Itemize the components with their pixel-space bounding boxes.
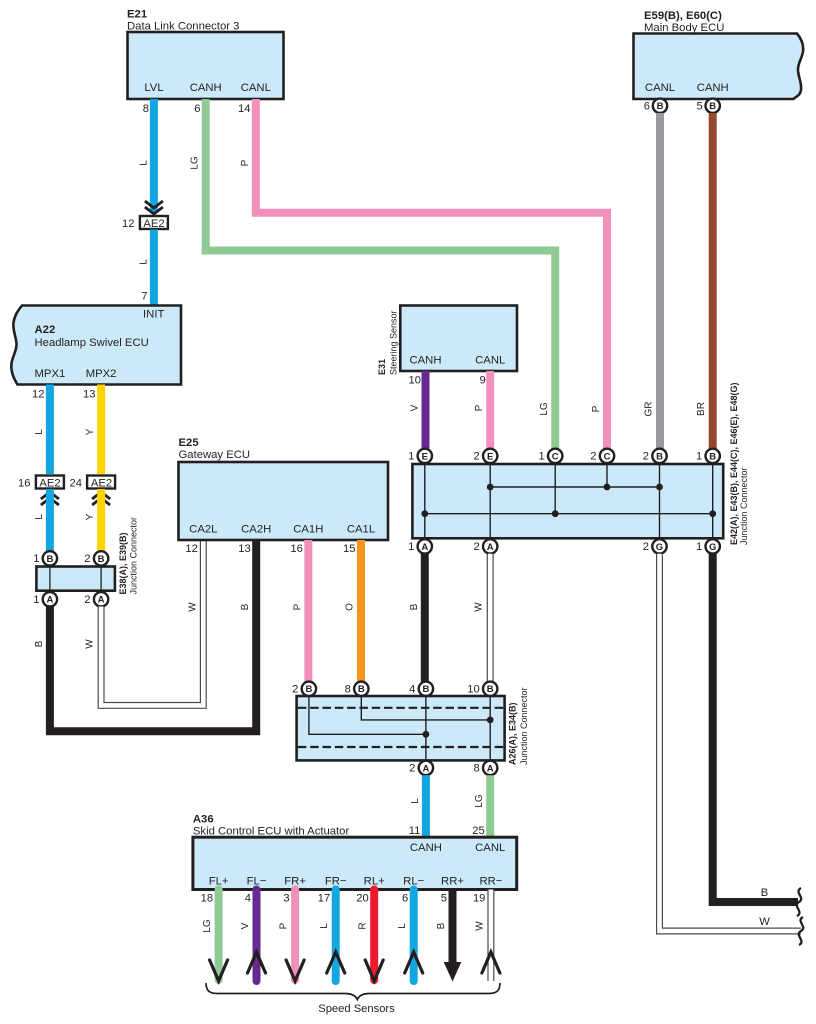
pin 1(A) of E38	[33, 592, 57, 606]
wire V (E31 CANH pin 10 to junction E42 pin 1E)	[409, 371, 426, 449]
svg-text:B: B	[761, 887, 768, 899]
svg-text:20: 20	[356, 893, 368, 905]
junction dot at 2C bus	[604, 484, 611, 491]
connector AE2 (pin 24) with chevron	[70, 476, 116, 506]
svg-text:25: 25	[472, 825, 484, 837]
sensor E31 (Steering Sensor) box	[377, 306, 517, 376]
svg-text:3: 3	[283, 893, 289, 905]
svg-text:B: B	[709, 451, 716, 462]
svg-text:4: 4	[245, 893, 251, 905]
svg-text:B: B	[409, 603, 420, 610]
svg-text:Headlamp Swivel ECU: Headlamp Swivel ECU	[35, 337, 149, 349]
svg-text:P: P	[474, 404, 485, 411]
connector AE2 (pin 12) with chevron	[122, 201, 168, 230]
svg-text:AE2: AE2	[39, 478, 60, 490]
svg-text:LVL: LVL	[144, 82, 163, 94]
svg-text:CA2H: CA2H	[241, 524, 271, 536]
svg-text:2: 2	[84, 594, 90, 606]
svg-text:B: B	[487, 684, 494, 695]
svg-text:CA1L: CA1L	[347, 524, 375, 536]
svg-text:10: 10	[467, 683, 479, 695]
svg-text:Junction Connector: Junction Connector	[739, 467, 749, 545]
svg-text:B: B	[358, 684, 365, 695]
svg-text:E59(B), E60(C): E59(B), E60(C)	[644, 10, 722, 22]
svg-text:1: 1	[408, 451, 414, 463]
svg-text:B: B	[305, 684, 312, 695]
svg-text:E: E	[487, 451, 493, 462]
pin 2(A) of E38	[84, 592, 108, 606]
svg-text:B: B	[46, 554, 53, 565]
wire Y (AE2 to junction E38 pin 2B)	[85, 489, 101, 551]
wire B (E38 pin 1A to E25 CA2H pin 13)	[34, 540, 256, 731]
svg-text:2: 2	[473, 541, 479, 553]
svg-text:Speed Sensors: Speed Sensors	[318, 1003, 395, 1015]
wire P (E31 CANL pin 9 to junction E42 pin 2E)	[474, 371, 490, 449]
svg-text:B: B	[422, 684, 429, 695]
svg-text:CANH: CANH	[409, 355, 441, 367]
pin 1(E) of E42	[408, 449, 432, 463]
svg-text:LG: LG	[539, 402, 550, 416]
svg-text:2: 2	[643, 541, 649, 553]
svg-text:8: 8	[473, 763, 479, 775]
junction dot at 1B bus	[709, 510, 716, 517]
pin 2(A) of E42	[473, 539, 497, 553]
svg-text:L: L	[34, 429, 45, 435]
svg-text:12: 12	[32, 389, 44, 401]
svg-text:A: A	[422, 763, 429, 774]
wire L (AE2 to junction E38 pin 1B)	[34, 489, 50, 551]
pin 4(B) of A26	[409, 682, 433, 696]
svg-text:Gateway ECU: Gateway ECU	[179, 449, 251, 461]
svg-text:1: 1	[538, 451, 544, 463]
svg-text:Steering Sensor: Steering Sensor	[389, 310, 399, 375]
pin 2(B) of E42	[643, 449, 667, 463]
wire GR (E59 CANL pin 6 to junction E42 pin 2B)	[644, 113, 661, 449]
junction connector E42(A), E43(B), E44(C), E46(E), E48(G) box	[412, 382, 749, 545]
svg-text:10: 10	[409, 375, 421, 387]
svg-text:V: V	[410, 404, 421, 411]
svg-text:P: P	[279, 922, 290, 929]
svg-text:P: P	[591, 405, 602, 412]
wire W (E42 pin 2G to right continuation)	[660, 554, 802, 931]
svg-text:R: R	[358, 922, 369, 929]
svg-text:LG: LG	[474, 794, 485, 808]
svg-text:B: B	[98, 554, 105, 565]
svg-text:Main Body ECU: Main Body ECU	[644, 22, 724, 34]
svg-text:CA2L: CA2L	[189, 524, 217, 536]
svg-text:12: 12	[185, 543, 197, 555]
svg-text:17: 17	[318, 893, 330, 905]
svg-text:2: 2	[473, 451, 479, 463]
svg-text:B: B	[240, 603, 251, 610]
internal wiring of junction A26	[298, 696, 503, 760]
svg-text:Junction Connector: Junction Connector	[519, 687, 529, 765]
svg-text:L: L	[397, 923, 408, 929]
pin 10(B) of A26	[467, 682, 497, 696]
speed sensors brace	[206, 983, 500, 1015]
svg-text:7: 7	[141, 291, 147, 303]
wire P (A36 FR+ pin 3 to speed sensor)	[279, 890, 305, 982]
svg-text:B: B	[34, 640, 45, 647]
junction dot CA1L to CANL	[487, 717, 494, 724]
svg-text:CANH: CANH	[410, 842, 442, 854]
svg-text:CANL: CANL	[241, 82, 271, 94]
svg-text:B: B	[436, 922, 447, 929]
wire LG (E21 CANH pin 6 to junction E42 pin 1C)	[190, 99, 556, 449]
svg-text:6: 6	[644, 101, 650, 113]
svg-text:CANH: CANH	[190, 82, 222, 94]
svg-text:AE2: AE2	[143, 218, 164, 230]
svg-text:E42(A), E43(B), E44(C), E46(E): E42(A), E43(B), E44(C), E46(E), E48(G)	[729, 382, 739, 545]
svg-text:A: A	[98, 595, 105, 606]
wire L (E21 LVL pin 8 to AE2)	[139, 99, 154, 212]
pin 8(A) of A26	[473, 761, 497, 775]
wire B (E42 pin 1A to A26 pin 4B)	[409, 554, 425, 682]
svg-text:L: L	[34, 514, 45, 520]
svg-text:1: 1	[33, 594, 39, 606]
svg-text:A36: A36	[193, 814, 214, 826]
junction connector A26(A), E34(B) box	[297, 687, 529, 765]
svg-text:P: P	[292, 603, 303, 610]
svg-text:G: G	[709, 542, 716, 553]
svg-text:12: 12	[122, 218, 134, 230]
wire LG (A36 FL+ pin 18 to speed sensor)	[201, 890, 228, 982]
svg-text:W: W	[187, 602, 198, 612]
pin 1(C) of E42	[538, 449, 562, 463]
svg-text:1: 1	[408, 541, 414, 553]
svg-text:G: G	[656, 542, 663, 553]
svg-text:AE2: AE2	[91, 478, 112, 490]
wire L (A36 FR- pin 17 to speed sensor)	[318, 890, 345, 982]
svg-text:A: A	[487, 542, 494, 553]
svg-text:MPX2: MPX2	[86, 368, 117, 380]
wire O (E25 CA1L pin 15 to A26 pin 8B)	[345, 540, 361, 682]
svg-text:RR−: RR−	[479, 876, 502, 888]
svg-text:2: 2	[292, 683, 298, 695]
pin 2(C) of E42	[590, 449, 614, 463]
internal bus wiring of junction E42	[425, 464, 713, 538]
wire V (A36 FL- pin 4 to speed sensor)	[240, 890, 266, 982]
ECU A36 (Skid Control ECU with Actuator) box	[193, 814, 517, 890]
wire L (A36 RL- pin 6 to speed sensor)	[397, 890, 423, 982]
connector AE2 (pin 16) with chevron	[18, 476, 64, 506]
wire W (E42 pin 2A to A26 pin 10B)	[474, 554, 491, 682]
svg-text:6: 6	[194, 103, 200, 115]
svg-text:L: L	[139, 259, 150, 265]
svg-text:B: B	[657, 101, 664, 112]
wire L (AE2 to A22 INIT pin 7)	[139, 230, 154, 306]
svg-text:4: 4	[409, 683, 415, 695]
svg-text:2: 2	[643, 451, 649, 463]
pin 6(B) of E59	[644, 99, 667, 113]
svg-text:L: L	[139, 160, 150, 166]
svg-text:13: 13	[83, 389, 95, 401]
junction dot CA1H to CANH	[423, 731, 430, 738]
svg-text:MPX1: MPX1	[35, 368, 66, 380]
wire LG (A26 pin 8A to A36 CANL pin 25)	[472, 775, 490, 837]
svg-text:BR: BR	[696, 402, 707, 416]
svg-text:A: A	[421, 542, 428, 553]
junction dot at 1C bus	[552, 510, 559, 517]
svg-text:Y: Y	[85, 513, 96, 520]
svg-text:CANH: CANH	[697, 82, 729, 94]
svg-text:CANL: CANL	[645, 82, 675, 94]
wire W (A36 RR- pin 19 to speed sensor)	[473, 890, 500, 982]
pin 2(B) of A26	[292, 682, 316, 696]
svg-text:B: B	[656, 451, 663, 462]
pin 2(A) of A26	[409, 761, 433, 775]
svg-text:8: 8	[345, 683, 351, 695]
svg-text:A: A	[46, 595, 53, 606]
wire W (E38 pin 2A to E25 CA2L pin 12)	[85, 540, 204, 705]
ECU E59(B), E60(C) (Main Body ECU) box with wavy right edge	[634, 10, 804, 99]
svg-text:14: 14	[238, 103, 250, 115]
svg-text:Y: Y	[85, 428, 96, 435]
pin 2(G) of E42	[643, 539, 667, 553]
svg-text:B: B	[709, 101, 716, 112]
wire P (E25 CA1H pin 16 to A26 pin 2B)	[292, 540, 308, 682]
svg-text:CANL: CANL	[475, 355, 505, 367]
svg-text:16: 16	[290, 543, 302, 555]
wire B (E42 pin 1G to right continuation)	[713, 554, 798, 902]
svg-text:16: 16	[18, 478, 30, 490]
svg-text:A26(A), E34(B): A26(A), E34(B)	[508, 702, 518, 765]
junction connector E38(A), E39(B) box	[36, 517, 138, 595]
svg-text:L: L	[319, 923, 330, 929]
svg-text:1: 1	[33, 553, 39, 565]
svg-text:24: 24	[70, 478, 82, 490]
pin 1(A) of E42	[408, 539, 432, 553]
svg-text:W: W	[474, 921, 485, 931]
svg-text:1: 1	[696, 451, 702, 463]
svg-text:E21: E21	[127, 9, 147, 21]
svg-text:13: 13	[238, 543, 250, 555]
junction dot at 2E bus	[487, 484, 494, 491]
connector E21 (Data Link Connector 3) box	[127, 9, 284, 100]
pin 1(B) of E42	[696, 449, 720, 463]
svg-text:INIT: INIT	[143, 309, 164, 321]
svg-text:1: 1	[696, 541, 702, 553]
svg-text:E25: E25	[179, 437, 199, 449]
pin 8(B) of A26	[345, 682, 369, 696]
wire R (A36 RL+ pin 20 to speed sensor)	[356, 890, 383, 982]
svg-text:9: 9	[479, 375, 485, 387]
wire B (A36 RR+ pin 5 to speed sensor)	[436, 890, 461, 982]
svg-text:W: W	[759, 916, 770, 928]
svg-text:E31: E31	[377, 359, 387, 375]
svg-text:2: 2	[84, 553, 90, 565]
ECU E25 (Gateway ECU) box	[179, 437, 389, 555]
svg-text:Junction Connector: Junction Connector	[129, 517, 139, 595]
svg-text:18: 18	[201, 893, 213, 905]
svg-text:E: E	[422, 451, 428, 462]
svg-text:O: O	[345, 603, 356, 611]
pin 5(B) of E59	[696, 99, 719, 113]
svg-text:6: 6	[402, 893, 408, 905]
svg-text:L: L	[410, 798, 421, 804]
svg-text:P: P	[240, 159, 251, 166]
svg-text:GR: GR	[644, 402, 655, 417]
wire L (A22 MPX1 pin 12 to AE2)	[32, 385, 50, 475]
wire P (E21 CANL pin 14 to junction E42 pin 2C)	[238, 99, 607, 449]
svg-text:CANL: CANL	[475, 842, 505, 854]
pin 1(B) of E38	[33, 551, 57, 565]
pin 1(G) of E42	[696, 539, 720, 553]
ECU A22 (Headlamp Swivel ECU) box with wavy left edge	[11, 306, 181, 385]
wire Y (A22 MPX2 pin 13 to AE2)	[83, 385, 101, 475]
pin 2(E) of E42	[473, 449, 497, 463]
wire BR (E59 CANH pin 5 to junction E42 pin 1B)	[696, 113, 713, 449]
pin 2(B) of E38	[84, 551, 108, 565]
svg-text:C: C	[604, 451, 611, 462]
svg-text:11: 11	[409, 825, 421, 837]
svg-text:W: W	[474, 602, 485, 612]
junction dot at 1A bus	[421, 510, 428, 517]
svg-text:LG: LG	[190, 156, 201, 170]
svg-text:RR+: RR+	[441, 876, 464, 888]
continuation squiggle of wire W	[799, 917, 803, 945]
svg-text:19: 19	[473, 893, 485, 905]
svg-text:V: V	[240, 922, 251, 929]
svg-text:W: W	[85, 639, 96, 649]
continuation squiggle of wire B	[797, 888, 801, 916]
svg-text:A22: A22	[35, 324, 56, 336]
junction dot at 2B bus	[656, 484, 663, 491]
svg-text:8: 8	[143, 103, 149, 115]
svg-text:5: 5	[441, 893, 447, 905]
svg-text:E38(A), E39(B): E38(A), E39(B)	[118, 532, 128, 594]
svg-text:Data Link Connector 3: Data Link Connector 3	[127, 21, 239, 33]
svg-text:Skid Control ECU with Actuator: Skid Control ECU with Actuator	[193, 826, 350, 838]
svg-text:15: 15	[343, 543, 355, 555]
wire L (A26 pin 2A to A36 CANH pin 11)	[409, 775, 426, 837]
svg-text:LG: LG	[202, 919, 213, 933]
svg-text:2: 2	[409, 763, 415, 775]
svg-text:A: A	[487, 763, 494, 774]
svg-text:C: C	[552, 451, 559, 462]
svg-text:CA1H: CA1H	[293, 524, 323, 536]
svg-text:5: 5	[696, 101, 702, 113]
svg-text:2: 2	[590, 451, 596, 463]
